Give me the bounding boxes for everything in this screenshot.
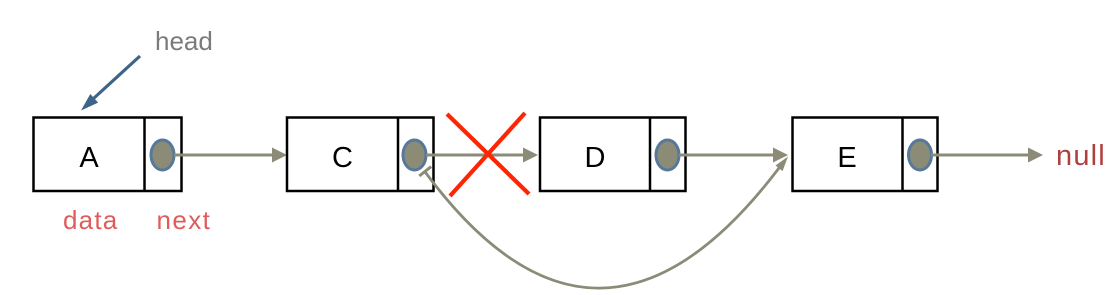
node A box	[34, 118, 182, 192]
wire C to D (crossed out)	[426, 148, 538, 163]
node A divider	[143, 118, 146, 192]
bypass wire C to E (curved)	[419, 167, 779, 289]
svg-text:D: D	[585, 142, 606, 174]
wire D to E	[679, 148, 788, 163]
svg-text:A: A	[79, 142, 99, 174]
wire E to null	[931, 148, 1043, 163]
svg-text:C: C	[332, 142, 353, 174]
svg-text:next: next	[157, 205, 212, 235]
node E divider	[901, 118, 904, 192]
node C pointer dot	[403, 140, 426, 170]
svg-text:data: data	[63, 205, 118, 235]
head pointer arrow	[81, 56, 140, 111]
node D box	[540, 118, 686, 192]
bypass start tick	[419, 167, 431, 176]
svg-text:head: head	[155, 26, 213, 56]
wire A to C	[174, 148, 287, 163]
bypass arrowhead at E	[776, 157, 789, 172]
node D pointer dot	[656, 140, 679, 170]
node E box	[793, 118, 938, 192]
node E pointer dot	[909, 140, 932, 170]
node C box	[287, 118, 434, 192]
node D divider	[649, 118, 652, 192]
svg-text:E: E	[837, 142, 856, 174]
node C divider	[397, 118, 400, 192]
svg-text:null: null	[1056, 140, 1106, 172]
deletion cross X	[447, 113, 529, 196]
node A pointer dot	[151, 140, 174, 170]
